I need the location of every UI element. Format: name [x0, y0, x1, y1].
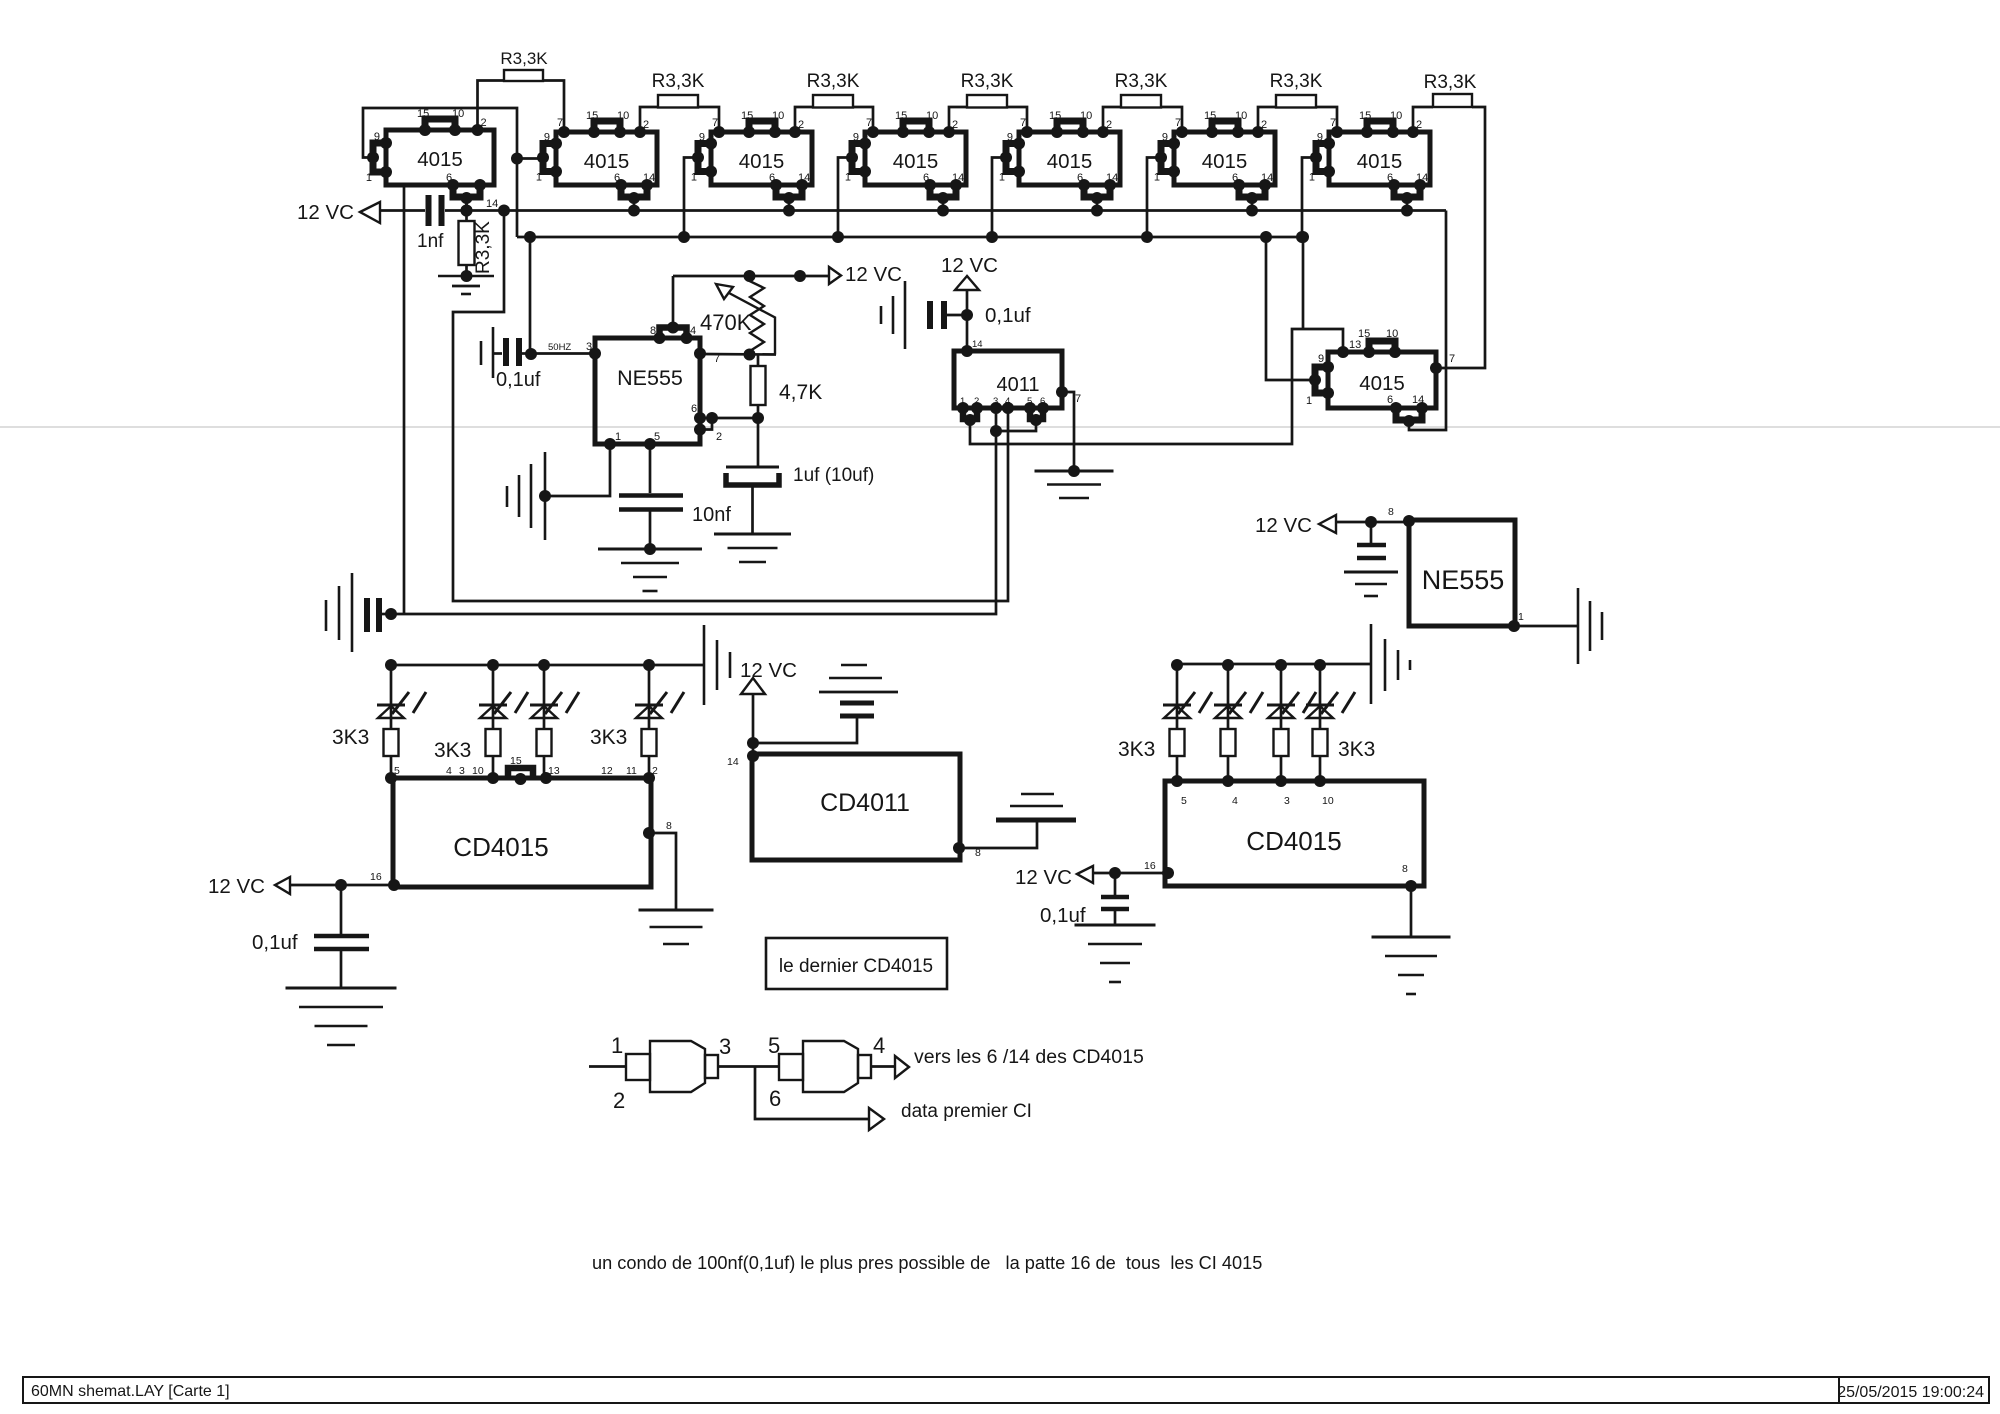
- ground (rotated) at NE555 pin1: [507, 452, 545, 540]
- svg-text:R3,3K: R3,3K: [1270, 71, 1323, 92]
- resistor R4 3,3K horizontal body: [961, 71, 1014, 108]
- ground (rotated) right end of LED line: [704, 625, 730, 705]
- svg-text:R3,3K: R3,3K: [961, 71, 1014, 92]
- svg-text:10: 10: [1322, 795, 1334, 807]
- wire gate A out to gate B in: [718, 1065, 779, 1068]
- svg-text:1: 1: [1154, 172, 1160, 184]
- resistor R12 3K3: [537, 729, 552, 781]
- svg-text:12 VC: 12 VC: [1255, 514, 1312, 537]
- wire IC1 pin14 node down into R8: [465, 199, 468, 221]
- wire bus2 down to U8 pins9/1: [1266, 237, 1315, 380]
- svg-text:8: 8: [1388, 506, 1394, 518]
- svg-text:R3,3K: R3,3K: [1424, 72, 1477, 93]
- wire 4011 pin7 to ground: [1062, 392, 1074, 471]
- svg-text:1: 1: [366, 172, 372, 184]
- wire IC7 pins9/1 down to bus2: [1302, 158, 1316, 238]
- svg-text:4015: 4015: [893, 150, 939, 173]
- svg-text:9: 9: [1162, 132, 1168, 144]
- gate B input box: [779, 1054, 803, 1080]
- svg-text:R3,3K: R3,3K: [807, 71, 860, 92]
- wire NE555-R pin8 to 12VC arrow: [1336, 521, 1409, 524]
- wire NE555 pin2 jog to node: [700, 418, 712, 430]
- ground (rotated) + capacitor at left end of lower net: [326, 573, 391, 652]
- IC U7 4015 shift register: [1309, 110, 1430, 217]
- wire 12VC distribution line above NE555: [673, 275, 829, 278]
- wire bus2 down leg toward U8 pin13 route: [1302, 237, 1305, 329]
- svg-text:10nf: 10nf: [692, 504, 731, 526]
- svg-text:R3,3K: R3,3K: [652, 71, 705, 92]
- svg-text:4015: 4015: [1202, 150, 1248, 173]
- wire LED common line (right CD4015): [1177, 663, 1371, 666]
- svg-text:12 VC: 12 VC: [1015, 866, 1072, 889]
- wire CD4015-R pin16 to 12VC arrow: [1093, 872, 1168, 875]
- svg-text:6: 6: [691, 403, 697, 415]
- ground below C10: [1344, 571, 1398, 574]
- svg-text:6: 6: [446, 172, 452, 184]
- ground at 4011 pin7: [1035, 470, 1114, 473]
- wire 4011 pins1/2 long route to U8 pin13: [970, 329, 1343, 444]
- wire 4011 pins5/6 jog to pin3 riser: [996, 420, 1036, 431]
- ground (rotated) right end of LED line (right): [1371, 624, 1410, 704]
- svg-text:7: 7: [557, 117, 563, 129]
- svg-text:1: 1: [1518, 611, 1524, 623]
- resistor R17 3K3: [1313, 729, 1328, 781]
- capacitor C4 10nf: [619, 496, 731, 527]
- svg-text:2: 2: [716, 431, 722, 443]
- ground at left CD4015 pin8: [639, 909, 714, 912]
- scanner artifact faint line: [0, 426, 2000, 428]
- gate B output box: [858, 1055, 871, 1078]
- svg-text:10: 10: [772, 110, 784, 122]
- capacitor C3 1uf (10uf) electrolytic: [726, 465, 874, 486]
- resistor R8 R3,3K vertical (IC1 pin14 to ground): [459, 221, 495, 274]
- wire bus1 right end down to U8 pin14 tab: [1409, 211, 1446, 431]
- wire R2 to IC3 pin7: [698, 107, 719, 132]
- svg-text:13: 13: [548, 765, 560, 777]
- wire LED common line (left CD4015): [391, 664, 704, 667]
- svg-text:13: 13: [1349, 339, 1361, 351]
- svg-text:7: 7: [1020, 117, 1026, 129]
- IC U6 4015 shift register: [1154, 110, 1275, 217]
- wire IC6 pins9/1 down to bus2: [1147, 158, 1161, 238]
- svg-text:6: 6: [769, 172, 775, 184]
- IC U9 NE555 timer: [586, 322, 722, 451]
- svg-text:6: 6: [1387, 172, 1393, 184]
- wire lower horizontal net to 4011 pin3: [391, 408, 996, 614]
- note box: le dernier CD4015: [766, 938, 947, 989]
- svg-text:3: 3: [993, 396, 998, 407]
- svg-text:1: 1: [536, 172, 542, 184]
- ground below R8: [438, 276, 494, 294]
- svg-text:1: 1: [1309, 172, 1315, 184]
- wire C3 to ground: [751, 485, 754, 534]
- svg-text:2: 2: [481, 117, 487, 129]
- svg-text:1uf (10uf): 1uf (10uf): [793, 465, 874, 486]
- LED D2: [479, 659, 528, 729]
- svg-text:6: 6: [1077, 172, 1083, 184]
- svg-text:2: 2: [974, 396, 979, 407]
- svg-text:4: 4: [690, 325, 696, 337]
- IC U1 4015 shift register: [366, 108, 498, 217]
- wire bus2 down to 50HZ node: [529, 237, 532, 354]
- wire C5 to 12VC node: [947, 314, 967, 317]
- IC U12 CD4011: [727, 750, 981, 860]
- svg-text:7: 7: [712, 117, 718, 129]
- svg-text:14: 14: [972, 339, 983, 350]
- capacitor C10 0,1uf (NE555-R decoupling): [1357, 522, 1386, 558]
- svg-text:8: 8: [1402, 863, 1408, 875]
- IC U11 CD4015: [370, 755, 672, 891]
- svg-text:6: 6: [1387, 394, 1393, 406]
- svg-text:15: 15: [1204, 110, 1216, 122]
- footer date bar right: [1837, 1377, 1989, 1403]
- svg-text:9: 9: [374, 131, 380, 143]
- svg-text:4015: 4015: [1357, 150, 1403, 173]
- open arrow data premier CI: [869, 1108, 884, 1130]
- svg-text:0,1uf: 0,1uf: [985, 304, 1031, 327]
- svg-text:12 VC: 12 VC: [941, 254, 998, 277]
- wire NE555 pin7 node line: [700, 353, 776, 356]
- svg-text:10: 10: [1080, 110, 1092, 122]
- wire R1 right lead to IC2 pin7: [543, 81, 564, 133]
- svg-text:3K3: 3K3: [590, 726, 627, 749]
- ground (rotated) for C5: [881, 281, 905, 349]
- resistor R7 R3,3K (top right): [1424, 72, 1477, 107]
- svg-text:4,7K: 4,7K: [779, 381, 822, 404]
- svg-text:470K: 470K: [700, 310, 752, 335]
- IC U5 4015 shift register: [999, 110, 1120, 217]
- ground below C4: [598, 548, 702, 551]
- ground below C6: [286, 987, 397, 990]
- wire bus1 (pin-14 supply bus): [445, 209, 1446, 212]
- svg-text:15: 15: [1358, 328, 1370, 340]
- svg-text:11: 11: [626, 765, 637, 777]
- wire IC4 pins9/1 down to bus2: [838, 158, 852, 238]
- wire IC5 pins9/1 down to bus2: [992, 158, 1006, 238]
- power symbol 12 VC (4011 supply): [941, 254, 998, 290]
- svg-text:12 VC: 12 VC: [297, 201, 354, 224]
- wire IC5 pin2 up to R5: [1103, 107, 1121, 132]
- resistor R15 3K3: [1221, 729, 1236, 781]
- resistor R2 3,3K horizontal body: [652, 71, 705, 108]
- svg-text:2: 2: [1261, 119, 1267, 131]
- wire 12VC to CD4011 pin14: [752, 694, 755, 756]
- svg-text:R3,3K: R3,3K: [1115, 71, 1168, 92]
- wire NE555 pin5 to 10nf cap: [649, 444, 652, 493]
- svg-text:4: 4: [873, 1033, 885, 1058]
- capacitor C8 + ground (inverted) at CD4011 pin8: [996, 794, 1076, 820]
- wire junction to IC2 pin9/1 tab: [517, 157, 543, 160]
- svg-text:16: 16: [370, 871, 382, 883]
- power symbol 12 VC (CD4011 supply): [740, 659, 797, 694]
- capacitor C9 0,1uf (right CD4015 decoupling): [1040, 873, 1129, 927]
- svg-text:8: 8: [650, 325, 656, 337]
- capacitor C5 0,1uf (4011 decoupling): [930, 301, 1031, 329]
- svg-text:4015: 4015: [1047, 150, 1093, 173]
- svg-text:3: 3: [1284, 795, 1290, 807]
- svg-text:le dernier CD4015: le dernier CD4015: [779, 956, 933, 977]
- LED D5: [1163, 659, 1212, 729]
- resistor R10 3K3: [384, 729, 399, 781]
- capacitor C1 1nf (series in supply line): [417, 195, 444, 252]
- resistor R11 3K3: [486, 729, 501, 781]
- svg-text:6: 6: [614, 172, 620, 184]
- svg-text:NE555: NE555: [617, 366, 683, 390]
- LED D3: [530, 659, 579, 729]
- wire C9 to ground: [1114, 911, 1117, 925]
- svg-text:1: 1: [999, 172, 1005, 184]
- open arrow vers les CD4015: [895, 1056, 909, 1078]
- wire R5 to IC6 pin7: [1161, 107, 1182, 132]
- svg-text:10: 10: [472, 765, 484, 777]
- svg-text:7: 7: [1175, 117, 1181, 129]
- svg-text:CD4015: CD4015: [1246, 826, 1341, 856]
- wire NE555 pin1 to ground: [545, 444, 610, 496]
- power symbol 12 VC (left CD4015): [208, 875, 290, 898]
- svg-text:2: 2: [798, 119, 804, 131]
- svg-text:6: 6: [1232, 172, 1238, 184]
- power symbol 12 VC (NE555 supply): [829, 263, 902, 286]
- LED D4: [635, 659, 684, 729]
- wire 12VC down to 4011 pin14: [966, 290, 969, 351]
- resistor R14 3K3: [1170, 729, 1185, 781]
- svg-text:un condo de 100nf(0,1uf) le pl: un condo de 100nf(0,1uf) le plus pres po…: [592, 1253, 1262, 1273]
- capacitor C6 0,1uf (left CD4015 decoupling): [252, 885, 369, 954]
- wire C6 to ground: [340, 951, 343, 988]
- gate A (NAND as buffer) input box: [626, 1054, 650, 1080]
- wire NE555 pins8/4 up to 12VC line: [672, 276, 675, 328]
- wire IC1 pin2 to R1 left lead: [478, 81, 505, 131]
- svg-text:12: 12: [601, 765, 613, 777]
- svg-text:2: 2: [952, 119, 958, 131]
- svg-text:vers les 6 /14 des CD4015: vers les 6 /14 des CD4015: [914, 1046, 1144, 1068]
- svg-text:6: 6: [769, 1086, 781, 1111]
- svg-text:8: 8: [666, 820, 672, 832]
- svg-text:2: 2: [652, 765, 658, 777]
- ground at right CD4015 pin8: [1372, 936, 1451, 939]
- wire IC1 pins9/1 over the top to IC2 pins9/1: [363, 108, 517, 237]
- resistor R13 3K3: [642, 729, 657, 781]
- svg-text:4: 4: [1232, 795, 1238, 807]
- svg-text:CD4015: CD4015: [453, 832, 548, 862]
- svg-text:2: 2: [643, 119, 649, 131]
- svg-text:9: 9: [1317, 132, 1323, 144]
- svg-text:14: 14: [1412, 394, 1424, 406]
- wire 12VC arrow to 1nf capacitor: [380, 209, 425, 212]
- wire R7 right lead down to U8 pin7: [1436, 107, 1485, 368]
- svg-text:1: 1: [960, 396, 965, 407]
- wire CD4015-R pin8 to ground: [1410, 886, 1413, 936]
- svg-text:16: 16: [1144, 860, 1156, 872]
- svg-text:4011: 4011: [996, 374, 1039, 396]
- wire IC3 pins9/1 down to bus2: [684, 158, 698, 238]
- svg-text:4015: 4015: [739, 150, 785, 173]
- wire IC2 pin2 up to R2: [640, 107, 658, 132]
- wire IC4 pin2 up to R4: [949, 107, 967, 132]
- wire CD4015 pin8 to ground: [649, 833, 676, 909]
- wire branch to data premier CI: [755, 1067, 869, 1120]
- svg-text:10: 10: [1386, 328, 1398, 340]
- svg-text:12 VC: 12 VC: [845, 263, 902, 286]
- wire R3 to IC4 pin7: [853, 107, 873, 132]
- svg-text:1: 1: [1306, 395, 1312, 407]
- svg-text:6: 6: [923, 172, 929, 184]
- wire IC1 pin1 area down to lower horizontal net: [403, 186, 406, 614]
- svg-text:5: 5: [654, 431, 660, 443]
- IC U8 4015 (last shift register): [1306, 328, 1455, 427]
- gate A body: [650, 1041, 705, 1092]
- svg-text:9: 9: [1007, 132, 1013, 144]
- IC U10 4011 NAND: [954, 339, 1081, 426]
- power symbol 12 VC (left, feeds 14-pin bus): [297, 201, 380, 224]
- LED D1: [377, 659, 426, 729]
- svg-text:5: 5: [768, 1033, 780, 1058]
- IC U4 4015 shift register: [845, 110, 966, 217]
- gate A output box: [705, 1055, 718, 1078]
- node bus2 to NE555 input leg: [524, 231, 536, 243]
- IC U13 CD4015: [1144, 775, 1424, 892]
- wire IC7 pin2 up to R7: [1413, 107, 1433, 132]
- svg-text:3: 3: [459, 765, 465, 777]
- IC U3 4015 shift register: [691, 110, 812, 217]
- svg-text:0,1uf: 0,1uf: [496, 369, 541, 391]
- wire R8 to ground node: [465, 265, 468, 276]
- svg-text:12 VC: 12 VC: [208, 875, 265, 898]
- svg-text:2: 2: [1416, 119, 1422, 131]
- svg-text:15: 15: [741, 110, 753, 122]
- svg-text:3K3: 3K3: [332, 726, 369, 749]
- wire C4 to ground: [649, 511, 652, 549]
- svg-text:15: 15: [895, 110, 907, 122]
- capacitor C2 0,1uf (50HZ input): [494, 338, 541, 391]
- wire node down to timing capacitor: [757, 418, 760, 467]
- svg-text:14: 14: [727, 756, 739, 768]
- svg-text:14: 14: [1416, 172, 1428, 184]
- svg-text:60MN shemat.LAY [Carte 1]: 60MN shemat.LAY [Carte 1]: [31, 1383, 230, 1400]
- svg-text:7: 7: [866, 117, 872, 129]
- potentiometer P1 470K: [700, 276, 775, 355]
- IC U14 NE555 (right): [1388, 506, 1524, 632]
- wire IC3 pin2 up to R3: [795, 107, 813, 132]
- svg-text:4015: 4015: [584, 150, 630, 173]
- svg-text:3: 3: [719, 1034, 731, 1059]
- wire 50HZ cap to NE555 pin3: [531, 352, 595, 355]
- svg-text:4015: 4015: [1359, 372, 1405, 395]
- svg-text:NE555: NE555: [1422, 565, 1505, 595]
- svg-text:1nf: 1nf: [417, 231, 444, 252]
- wire bus1 down-left-down to CD4011 pin4 (long route): [453, 211, 1008, 602]
- resistor R3 3,3K horizontal body: [807, 71, 860, 108]
- svg-text:2: 2: [613, 1088, 625, 1113]
- IC U2 4015 shift register: [536, 110, 657, 217]
- svg-text:14: 14: [798, 172, 810, 184]
- resistor R1 R3,3K (top left, raised): [500, 49, 548, 81]
- wire bus2 (clock bus): [517, 236, 1303, 239]
- LED D8: [1306, 659, 1355, 729]
- LED D7: [1267, 659, 1316, 729]
- resistor R16 3K3: [1274, 729, 1289, 781]
- footer title bar left: [23, 1377, 1839, 1403]
- svg-text:R3,3K: R3,3K: [473, 221, 494, 274]
- svg-text:15: 15: [1049, 110, 1061, 122]
- svg-text:5: 5: [1181, 795, 1187, 807]
- svg-text:R3,3K: R3,3K: [500, 49, 548, 68]
- wire CD4015 pin16 to 12VC arrow: [290, 884, 394, 887]
- ground below C3: [714, 533, 791, 536]
- LED D6: [1214, 659, 1263, 729]
- wire R4 to IC5 pin7: [1007, 107, 1027, 132]
- wire R6 to IC7 pin7: [1316, 107, 1337, 132]
- svg-text:50HZ: 50HZ: [548, 342, 571, 353]
- svg-text:1: 1: [615, 431, 621, 443]
- svg-text:9: 9: [1318, 353, 1324, 365]
- resistor R5 3,3K horizontal body: [1115, 71, 1168, 108]
- svg-text:data premier CI: data premier CI: [901, 1101, 1032, 1122]
- svg-text:3K3: 3K3: [1338, 738, 1375, 761]
- svg-text:15: 15: [417, 108, 429, 120]
- wire NE555-R pin1 to ground: [1514, 625, 1578, 628]
- svg-text:9: 9: [699, 132, 705, 144]
- svg-text:5: 5: [1027, 396, 1032, 407]
- wire IC6 pin2 up to R6: [1258, 107, 1276, 132]
- svg-text:10: 10: [452, 108, 464, 120]
- node 50HZ: [525, 348, 537, 360]
- gate B body: [803, 1041, 858, 1092]
- svg-text:4: 4: [1005, 396, 1010, 407]
- svg-text:1: 1: [611, 1033, 623, 1058]
- svg-text:15: 15: [586, 110, 598, 122]
- svg-text:10: 10: [1390, 110, 1402, 122]
- ground (rotated) at NE555-R pin1: [1578, 588, 1602, 664]
- wire gate B out to arrow: [871, 1065, 895, 1068]
- svg-text:3K3: 3K3: [1118, 738, 1155, 761]
- svg-text:14: 14: [486, 198, 498, 210]
- ground below C9: [1075, 924, 1156, 927]
- svg-text:12 VC: 12 VC: [740, 659, 797, 682]
- power symbol 12 VC (right CD4015): [1015, 866, 1093, 889]
- wire input to gate A: [589, 1065, 626, 1068]
- svg-text:9: 9: [544, 132, 550, 144]
- wire 4,7K to pin6/pin2 node: [757, 405, 760, 418]
- svg-text:10: 10: [617, 110, 629, 122]
- svg-text:3: 3: [586, 341, 592, 353]
- svg-text:0,1uf: 0,1uf: [252, 931, 298, 954]
- ground (rotated) left of 50HZ cap: [481, 327, 493, 378]
- capacitor C7 + ground (inverted) at CD4011 pin14: [753, 665, 898, 743]
- svg-text:7: 7: [1075, 393, 1081, 405]
- wire NE555 pin6 to node: [700, 417, 758, 420]
- svg-text:3K3: 3K3: [434, 739, 471, 762]
- resistor R6 3,3K horizontal body: [1270, 71, 1323, 108]
- svg-text:5: 5: [394, 765, 400, 777]
- svg-text:14: 14: [1106, 172, 1118, 184]
- svg-text:14: 14: [952, 172, 964, 184]
- svg-text:7: 7: [1330, 117, 1336, 129]
- svg-text:14: 14: [1261, 172, 1273, 184]
- svg-text:15: 15: [1359, 110, 1371, 122]
- svg-text:10: 10: [1235, 110, 1247, 122]
- wire CD4011 pin8 to cap/ground cluster: [959, 821, 1037, 848]
- svg-text:15: 15: [510, 755, 522, 767]
- svg-text:25/05/2015 19:00:24: 25/05/2015 19:00:24: [1837, 1384, 1984, 1401]
- resistor R9 4,7K: [751, 355, 823, 406]
- power symbol 12 VC (right NE555): [1255, 514, 1336, 537]
- svg-text:10: 10: [926, 110, 938, 122]
- svg-text:14: 14: [643, 172, 655, 184]
- svg-text:2: 2: [1106, 119, 1112, 131]
- svg-text:1: 1: [845, 172, 851, 184]
- svg-text:7: 7: [1449, 353, 1455, 365]
